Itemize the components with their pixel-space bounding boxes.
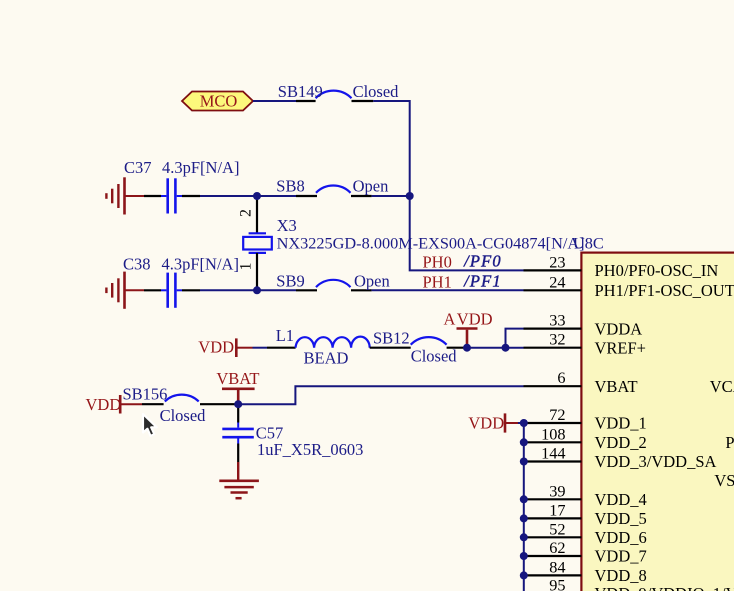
svg-text:Closed: Closed (353, 82, 400, 101)
pin 72 (524, 422, 582, 424)
wire VDD to L1 (253, 347, 268, 349)
IC U8C (STM32 MCU) body (581, 253, 734, 591)
svg-text:62: 62 (549, 538, 565, 557)
svg-text:24: 24 (549, 272, 565, 291)
pin 17 (524, 517, 582, 519)
svg-text:SB12: SB12 (373, 328, 410, 347)
svg-text:A: A (444, 310, 456, 329)
node junction X3 pin1 (253, 286, 261, 294)
svg-text:84: 84 (549, 557, 565, 576)
svg-text:VDD_2: VDD_2 (595, 433, 647, 452)
svg-text:PH1/PF1-OSC_OUT: PH1/PF1-OSC_OUT (595, 281, 734, 300)
capacitor C37 (124, 158, 239, 214)
svg-text:4.3pF[N/A]: 4.3pF[N/A] (162, 158, 239, 177)
svg-text:Open: Open (353, 177, 389, 196)
pin 39 (524, 498, 582, 500)
pin 23 (524, 269, 582, 271)
wire VBAT junction to pin 6 (238, 386, 523, 404)
inductor L1 BEAD (267, 326, 370, 367)
svg-text:PD: PD (725, 433, 734, 452)
node junction SB8/vertical (406, 192, 414, 200)
pin 6 (524, 385, 582, 387)
svg-text:VBAT: VBAT (216, 369, 259, 388)
svg-text:1: 1 (238, 263, 255, 271)
node junction VREF branch (502, 344, 510, 352)
svg-text:VDD_3/VDD_SA: VDD_3/VDD_SA (595, 452, 717, 471)
pin 33 (524, 328, 582, 330)
wire SB8 to vertical (372, 195, 410, 197)
svg-text:144: 144 (541, 444, 565, 463)
svg-text:C37: C37 (124, 158, 152, 177)
svg-text:VCA: VCA (710, 377, 734, 396)
svg-text:BEAD: BEAD (304, 348, 349, 367)
svg-text:39: 39 (549, 481, 565, 500)
resistor SB8 (solder bridge) (276, 177, 388, 197)
power port VDD (bus) (468, 413, 518, 432)
resistor SB12 (solder bridge) (370, 328, 464, 365)
pin names (595, 261, 734, 591)
pin 32 (524, 347, 582, 349)
svg-text:VDDA: VDDA (595, 319, 643, 338)
crystal X3 (238, 198, 585, 288)
wire SB9 to pin24 (372, 289, 524, 291)
wire MCO to SB149 (253, 100, 296, 102)
wire SB12 to VREF+ (464, 347, 524, 349)
power port VBAT (216, 369, 259, 404)
pin 52 (524, 536, 582, 538)
svg-text:VDD: VDD (468, 414, 504, 433)
node junction AVDD (463, 344, 471, 352)
node junctions on VDD bus (520, 419, 528, 579)
svg-text:VDD_4: VDD_4 (595, 490, 647, 509)
svg-text:VDD: VDD (86, 395, 122, 414)
wire C38 to SB9 (200, 289, 296, 291)
resistor SB156 (solder bridge) (123, 385, 239, 426)
svg-text:NX3225GD-8.000M-EXS00A-CG04874: NX3225GD-8.000M-EXS00A-CG04874[N/A] (277, 233, 585, 252)
svg-text:U8C: U8C (573, 233, 604, 252)
svg-text:/PF0: /PF0 (463, 252, 502, 271)
svg-text:108: 108 (541, 424, 565, 443)
svg-text:32: 32 (549, 330, 565, 349)
svg-text:VREF+: VREF+ (595, 338, 646, 357)
svg-text:VSS: VSS (714, 471, 734, 490)
svg-text:PH0: PH0 (423, 252, 452, 271)
svg-text:C38: C38 (123, 254, 151, 273)
pin 24 (524, 289, 582, 291)
svg-text:Closed: Closed (411, 347, 458, 366)
power port AVDD (444, 310, 493, 348)
capacitor C38 (123, 254, 239, 308)
svg-text:Closed: Closed (160, 406, 207, 425)
svg-text:PH1: PH1 (423, 272, 452, 291)
ground at C57 (219, 462, 259, 498)
svg-text:33: 33 (549, 311, 565, 330)
svg-text:VDD_1: VDD_1 (595, 414, 647, 433)
svg-text:2: 2 (238, 209, 255, 217)
ground (earth) at C38 (106, 272, 144, 309)
capacitor C57 (222, 408, 363, 462)
wire C37 to SB8 (200, 195, 296, 197)
node junction X3 pin2 (253, 192, 261, 200)
wire VDD bus vertical (518, 423, 524, 591)
svg-text:4.3pF[N/A]: 4.3pF[N/A] (162, 254, 239, 273)
mouse cursor (143, 414, 157, 436)
pin 84 (524, 574, 582, 576)
svg-text:VBAT: VBAT (595, 377, 638, 396)
svg-text:1uF_X5R_0603: 1uF_X5R_0603 (257, 440, 363, 459)
power port VDD (at L1) (198, 337, 252, 357)
svg-text:23: 23 (549, 252, 565, 271)
svg-text:VDD_9/VDDIO_1/VDD_10: VDD_9/VDDIO_1/VDD_10 (595, 584, 734, 591)
svg-text:72: 72 (549, 405, 565, 424)
svg-text:VDD_7: VDD_7 (595, 547, 647, 566)
svg-text:VDD: VDD (198, 337, 234, 356)
IC pins (black) (524, 270, 582, 575)
resistor SB149 (solder bridge) (278, 82, 399, 101)
svg-text:L1: L1 (276, 326, 294, 345)
ground (earth) at C37 (106, 177, 144, 214)
svg-text:95: 95 (549, 576, 565, 591)
svg-text:VDD_5: VDD_5 (595, 509, 647, 528)
pin 62 (524, 555, 582, 557)
port MCO (182, 91, 253, 110)
svg-text:SB9: SB9 (276, 272, 304, 291)
svg-text:SB149: SB149 (278, 82, 323, 101)
svg-text:VDD_6: VDD_6 (595, 528, 647, 547)
wire SB149 to corner down to PH0 row (373, 101, 523, 270)
svg-text:SB8: SB8 (276, 177, 304, 196)
svg-text:17: 17 (549, 500, 565, 519)
pin 108 (524, 441, 582, 443)
power port VDD (at SB156) (86, 395, 143, 414)
wire branch to VDDA (506, 329, 524, 348)
pin numbers (541, 252, 565, 591)
node junction VBAT/SB156/C57 (234, 400, 242, 408)
svg-text:MCO: MCO (200, 91, 238, 110)
svg-text:VDD: VDD (457, 310, 493, 329)
svg-text:Open: Open (354, 272, 390, 291)
svg-text:X3: X3 (277, 216, 297, 235)
svg-text:VDD_8: VDD_8 (595, 566, 647, 585)
pin 144 (524, 460, 582, 462)
svg-text:PH0/PF0-OSC_IN: PH0/PF0-OSC_IN (595, 261, 719, 280)
resistor SB9 (solder bridge) (276, 272, 389, 291)
svg-text:SB156: SB156 (123, 385, 168, 404)
svg-text:/PF1: /PF1 (463, 272, 502, 291)
svg-text:52: 52 (549, 519, 565, 538)
svg-text:6: 6 (557, 368, 565, 387)
